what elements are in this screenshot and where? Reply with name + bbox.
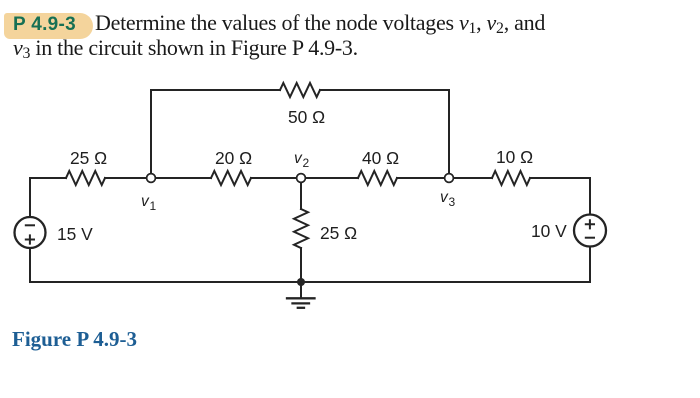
svg-text:25 Ω: 25 Ω xyxy=(70,148,107,168)
wire: node v2 down to 25 ohm resistor xyxy=(300,178,302,209)
wire: top branch right segment xyxy=(320,89,449,91)
resistor 50 ohm (top branch) xyxy=(280,83,320,97)
resistor 25 ohm (left) xyxy=(66,171,105,185)
wire: left end to 25 ohm resistor xyxy=(30,177,66,179)
svg-text:10 Ω: 10 Ω xyxy=(496,147,533,167)
resistor 20 ohm xyxy=(211,171,251,185)
problem number highlight xyxy=(4,13,93,39)
node v2 terminal circle xyxy=(297,174,306,183)
wire: 10 V source to bottom wire xyxy=(589,247,591,283)
svg-text:50 Ω: 50 Ω xyxy=(288,107,325,127)
wire: top branch left segment xyxy=(151,89,280,91)
10 V source minus sign xyxy=(586,237,594,239)
svg-text:1: 1 xyxy=(150,199,157,213)
problem statement line 2 xyxy=(13,35,358,61)
wire: node v2 to 40 ohm resistor xyxy=(301,177,358,179)
svg-text:10 V: 10 V xyxy=(531,221,567,241)
wire: 40 ohm resistor to 10 ohm resistor through node v3 xyxy=(397,177,492,179)
15 V source minus sign xyxy=(26,224,34,226)
wire: 25 ohm resistor to 20 ohm resistor through node v1 xyxy=(105,177,211,179)
resistor 25 ohm (vertical) xyxy=(294,209,308,248)
resistor 40 ohm xyxy=(358,171,397,185)
wire: 20 ohm resistor to node v2 xyxy=(251,177,301,179)
svg-text:40 Ω: 40 Ω xyxy=(362,148,399,168)
svg-text:3: 3 xyxy=(449,195,456,209)
problem statement line 1 xyxy=(95,10,545,36)
10 V source plus sign xyxy=(586,220,594,228)
svg-text:25 Ω: 25 Ω xyxy=(320,223,357,243)
wire: left branch down to 15 V source xyxy=(29,178,31,217)
figure caption xyxy=(12,327,137,352)
svg-text:15 V: 15 V xyxy=(57,224,93,244)
wire: right branch down to 10 V source xyxy=(589,178,591,215)
wire: 10 ohm resistor to right corner xyxy=(530,177,590,179)
voltage source 10 V circle xyxy=(574,215,606,247)
wire: node v1 up to top branch xyxy=(150,90,152,178)
wire: vertical 25 ohm resistor to ground junction xyxy=(300,248,302,282)
junction dot at ground node xyxy=(297,278,305,286)
svg-text:20 Ω: 20 Ω xyxy=(215,148,252,168)
wire: top branch down to node v3 xyxy=(448,90,450,178)
wire: 15 V source to bottom wire xyxy=(29,248,31,282)
resistor 10 ohm xyxy=(492,171,530,185)
svg-text:2: 2 xyxy=(303,156,310,170)
node v3 terminal circle xyxy=(445,174,454,183)
node v1 terminal circle xyxy=(147,174,156,183)
15 V source plus sign xyxy=(26,235,34,243)
ground symbol xyxy=(287,282,315,308)
wire: bottom return wire xyxy=(30,281,590,283)
voltage source 15 V circle xyxy=(15,217,46,248)
